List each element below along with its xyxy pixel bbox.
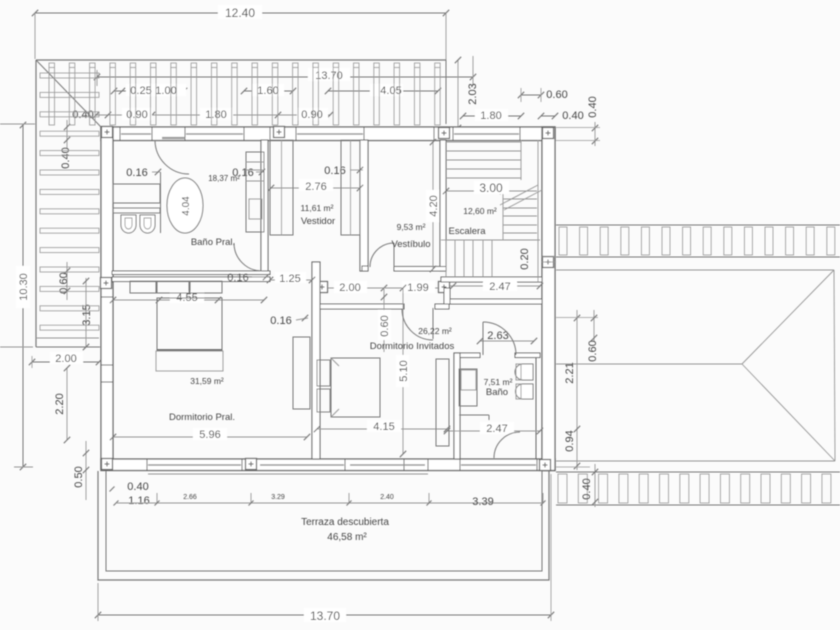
svg-text:1.25: 1.25 bbox=[279, 273, 300, 285]
svg-text:1.99: 1.99 bbox=[407, 282, 428, 294]
vanity counter Bano Pral bbox=[113, 184, 160, 203]
dim 3.00 (stairs) bbox=[443, 181, 509, 195]
svg-text:3.39: 3.39 bbox=[472, 496, 493, 508]
dim 2.21 / 0.94 (right side vertical) bbox=[556, 310, 598, 470]
svg-text:1.80: 1.80 bbox=[205, 109, 226, 121]
column marker 11 bbox=[540, 460, 551, 471]
svg-text:0.16: 0.16 bbox=[227, 272, 248, 284]
door arc Bano to terrace bbox=[494, 432, 520, 458]
svg-text:12.40: 12.40 bbox=[225, 6, 255, 20]
wall Bano (small) left bbox=[454, 353, 460, 459]
right wing roof band (upper) edges bbox=[556, 225, 840, 257]
svg-text:5.96: 5.96 bbox=[199, 429, 220, 441]
dim 0.60 (right side vertical) bbox=[587, 310, 599, 362]
svg-text:Baño: Baño bbox=[486, 387, 508, 398]
roof hatch band top (vertical battens) bbox=[49, 63, 440, 125]
svg-text:10.30: 10.30 bbox=[18, 273, 30, 301]
right wing roof band (upper) battens bbox=[559, 227, 835, 255]
toilet Bano bbox=[515, 364, 533, 380]
dim 4.55 (Bano Pral width) bbox=[110, 291, 267, 304]
closet Vestidor left bbox=[270, 140, 293, 235]
door arc Bano Pral bottom bbox=[234, 243, 262, 271]
dim 5.96 (Dormitorio Pral width) bbox=[110, 428, 310, 441]
wall Dormitorio Pral top bbox=[112, 277, 270, 282]
bed corner marks bbox=[331, 358, 339, 417]
svg-text:0.40: 0.40 bbox=[72, 109, 93, 121]
svg-text:0.60: 0.60 bbox=[546, 89, 567, 101]
svg-text:11,61 m²: 11,61 m² bbox=[301, 203, 334, 213]
room label Dormitorio Invitados bbox=[370, 326, 455, 352]
svg-text:2.63: 2.63 bbox=[487, 330, 508, 342]
shower column Bano Pral bbox=[246, 152, 264, 232]
door Vestibulo arc bbox=[370, 243, 394, 267]
svg-text:2.00: 2.00 bbox=[55, 353, 76, 365]
room label Bano Pral bbox=[191, 174, 240, 248]
dim row 2.00 / 1.99 / 2.47 (corridor) bbox=[328, 279, 543, 294]
wall Bano Pral / Vestidor bbox=[261, 140, 268, 271]
terrace dim row 2.66 / 3.29 / 2.40 bbox=[110, 481, 546, 508]
toilet Bano Pral bbox=[121, 215, 136, 233]
left wall joints bbox=[101, 282, 113, 382]
svg-text:3.15: 3.15 bbox=[81, 304, 93, 325]
svg-text:Vestidor: Vestidor bbox=[301, 216, 335, 227]
dim line 13.70 (upper) bbox=[94, 56, 476, 86]
svg-text:0.40: 0.40 bbox=[587, 96, 599, 117]
svg-text:2.03: 2.03 bbox=[467, 83, 479, 104]
room label Dormitorio Pral bbox=[169, 376, 235, 423]
svg-text:2.20: 2.20 bbox=[54, 393, 66, 414]
door arc Bano Pral top bbox=[155, 140, 189, 174]
terrace parapet inner bbox=[106, 471, 542, 571]
svg-text:4.05: 4.05 bbox=[380, 85, 401, 97]
dim 10.30 (left overall height) bbox=[0, 122, 35, 470]
column marker 3 bbox=[439, 128, 450, 139]
wall Bano (small) top bbox=[454, 353, 540, 358]
wall Vestidor / Vestibulo bbox=[360, 140, 368, 271]
svg-text:9,53 m²: 9,53 m² bbox=[397, 222, 426, 232]
door Dormitorio Invitados leaf bbox=[432, 308, 434, 339]
room label Escalera bbox=[449, 206, 497, 237]
svg-text:0.16: 0.16 bbox=[126, 167, 147, 179]
bed Dormitorio Pral bbox=[157, 298, 222, 351]
dim 0.20 (vertical, right wall) bbox=[519, 248, 556, 269]
shower screen Bano bbox=[459, 415, 489, 420]
stairs right flight treads bbox=[503, 191, 537, 240]
dim 0.40 (vertical, right wall) bbox=[556, 96, 600, 146]
svg-text:31,59 m²: 31,59 m² bbox=[190, 376, 224, 386]
svg-text:4.04: 4.04 bbox=[181, 196, 192, 216]
column marker 1 bbox=[102, 127, 113, 138]
svg-text:2.76: 2.76 bbox=[305, 181, 326, 193]
svg-text:2.47: 2.47 bbox=[486, 423, 507, 435]
svg-text:0.16: 0.16 bbox=[270, 315, 291, 327]
dim 0.40 (right side lower vertical) bbox=[581, 464, 598, 507]
dim 2.03 (vertical, roof band height) bbox=[455, 57, 479, 131]
dim line 13.70 (bottom) bbox=[95, 474, 554, 623]
bathtub (oval) Bano Pral bbox=[167, 178, 203, 233]
svg-text:1.16: 1.16 bbox=[128, 495, 149, 507]
dim line 12.40 (top overall width) bbox=[32, 5, 449, 78]
column marker 4 bbox=[543, 128, 554, 139]
svg-text:0.90: 0.90 bbox=[301, 109, 322, 121]
svg-text:0.60: 0.60 bbox=[379, 315, 391, 336]
cistern band bbox=[113, 208, 160, 213]
dim 3.15 (left, vertical) bbox=[81, 278, 93, 350]
dim 0.60 (top right) bbox=[518, 88, 568, 102]
wall Dormitorio Pral / Invitados bbox=[312, 262, 320, 459]
vanity front edge bbox=[160, 172, 162, 233]
svg-text:3.29: 3.29 bbox=[271, 494, 285, 501]
hip roof diagonal (top-left corner) bbox=[36, 60, 101, 127]
right wing roof band (lower) battens bbox=[558, 474, 831, 503]
svg-text:0.40: 0.40 bbox=[562, 110, 583, 122]
svg-text:0.60: 0.60 bbox=[58, 272, 70, 293]
roof hatch band left (horizontal battens) bbox=[40, 73, 99, 330]
wall Vestibulo bottom bbox=[362, 266, 446, 271]
door Vestibulo leaf bbox=[393, 243, 395, 267]
svg-text:0.90: 0.90 bbox=[126, 109, 147, 121]
stairs room right inner edge bbox=[537, 140, 539, 282]
svg-text:4.20: 4.20 bbox=[428, 195, 440, 216]
svg-text:2.66: 2.66 bbox=[183, 494, 197, 501]
door Bano arc bbox=[483, 322, 516, 355]
column marker 10 bbox=[246, 459, 257, 470]
door Dormitorio Invitados arc bbox=[402, 309, 433, 340]
svg-text:5.10: 5.10 bbox=[398, 360, 410, 381]
column marker 6 bbox=[317, 282, 328, 293]
dim row 0.90 1.80 0.40 (right) bbox=[296, 108, 584, 122]
svg-text:1.80: 1.80 bbox=[480, 110, 501, 122]
top wall window glazing lines bbox=[121, 134, 519, 138]
dim 2.76 (Vestidor width) bbox=[268, 179, 363, 193]
bidet Bano Pral bbox=[140, 215, 155, 233]
column marker 5 bbox=[101, 278, 112, 289]
svg-text:26,22 m²: 26,22 m² bbox=[418, 326, 452, 336]
room label Vestibulo bbox=[391, 222, 430, 250]
svg-text:Terraza descubierta: Terraza descubierta bbox=[301, 517, 389, 528]
stairs break line bbox=[500, 185, 542, 210]
dim 2.63 (Bano door) bbox=[477, 330, 537, 344]
wardrobe Dormitorio Pral bbox=[293, 337, 310, 409]
dim row 0.40 0.90 1.80 (left) bbox=[72, 108, 296, 121]
wardrobe Dormitorio Invitados bbox=[436, 359, 449, 446]
svg-text:0.50: 0.50 bbox=[73, 466, 85, 487]
dim 4.20 (vertical, Escalera) bbox=[426, 139, 440, 272]
exterior wall bottom bbox=[101, 459, 555, 471]
dim 0.60 (vertical, door pier) bbox=[378, 289, 391, 352]
svg-text:0.20: 0.20 bbox=[519, 248, 531, 269]
svg-text:3.00: 3.00 bbox=[479, 181, 503, 195]
svg-text:2.40: 2.40 bbox=[380, 494, 394, 501]
wall corridor / stairs bottom bbox=[441, 277, 542, 282]
dim 0.40 (vertical, left wall thickness) bbox=[60, 120, 72, 169]
exterior wall top bbox=[101, 127, 555, 141]
wall hall / Dormitorio Invitados (right part) bbox=[449, 299, 542, 304]
svg-text:1.00: 1.00 bbox=[155, 85, 176, 97]
exterior wall right bbox=[542, 127, 555, 471]
bidet Bano bbox=[516, 384, 534, 399]
roof outline top-left (main) bbox=[36, 60, 446, 347]
svg-text:2.21: 2.21 bbox=[564, 362, 576, 383]
terrace step line bbox=[148, 473, 428, 475]
bottom wall mullions bbox=[147, 459, 537, 471]
svg-text:13.70: 13.70 bbox=[310, 609, 340, 623]
dim 2.20 (left, vertical) bbox=[54, 365, 70, 443]
svg-text:0.25: 0.25 bbox=[130, 85, 151, 97]
closet Vestidor right bbox=[341, 140, 360, 235]
column marker 2 bbox=[274, 127, 285, 138]
bed foot Dormitorio Pral bbox=[156, 351, 223, 371]
svg-text:2.00: 2.00 bbox=[339, 282, 360, 294]
top wall mullions bbox=[120, 127, 520, 141]
dim 4.15 / 2.47 (bottom rooms) bbox=[314, 420, 543, 435]
wall Bano Pral bottom bbox=[112, 271, 270, 275]
wall Dormitorio Invitados top (door gap) bbox=[314, 304, 449, 309]
svg-text:7,51 m²: 7,51 m² bbox=[484, 377, 513, 387]
svg-text:46,58 m²: 46,58 m² bbox=[327, 532, 367, 543]
dim 0.16 leaders (upper rooms) bbox=[126, 165, 363, 179]
svg-text:Baño Pral.: Baño Pral. bbox=[191, 237, 235, 248]
wall Vestibulo / Escalera bbox=[440, 140, 446, 271]
terrace parapet outer bbox=[98, 471, 549, 580]
svg-text:0.16: 0.16 bbox=[324, 165, 345, 177]
dim 5.10 (vertical, Dormitorio Invitados) bbox=[396, 285, 410, 457]
wall Bano (small) right edge bbox=[535, 357, 537, 459]
door Bano leaf bbox=[482, 322, 484, 355]
dim 2.00 (left) bbox=[29, 352, 102, 368]
svg-text:Dormitorio Pral.: Dormitorio Pral. bbox=[169, 412, 235, 423]
svg-text:1.60: 1.60 bbox=[257, 85, 278, 97]
room label Terraza descubierta bbox=[301, 517, 389, 543]
bed Dormitorio Invitados bbox=[331, 358, 380, 417]
exterior wall left bbox=[101, 127, 113, 470]
svg-text:Vestíbulo: Vestíbulo bbox=[391, 239, 430, 250]
dim 0.60 (left, vertical) bbox=[58, 262, 70, 300]
svg-text:0.60: 0.60 bbox=[587, 340, 599, 361]
vanity Bano bbox=[459, 369, 477, 406]
svg-text:4.15: 4.15 bbox=[373, 421, 394, 433]
dim row 0.16 / 1.25 bbox=[227, 272, 315, 285]
svg-text:2.47: 2.47 bbox=[489, 281, 510, 293]
svg-text:12,60 m²: 12,60 m² bbox=[463, 206, 497, 216]
svg-text:Dormitorio Invitados: Dormitorio Invitados bbox=[370, 341, 455, 352]
pillows Dormitorio Invitados bbox=[317, 360, 330, 412]
svg-text:0.40: 0.40 bbox=[581, 478, 593, 499]
column marker 7 bbox=[439, 282, 450, 293]
dim 0.50 (left, vertical) bbox=[73, 441, 89, 500]
right wing roof band (lower) edges bbox=[556, 472, 840, 505]
column marker 9 bbox=[102, 459, 113, 470]
svg-text:0.40: 0.40 bbox=[127, 481, 148, 493]
svg-text:0.94: 0.94 bbox=[564, 430, 576, 451]
svg-text:Escalera: Escalera bbox=[449, 226, 487, 237]
svg-text:18,37 m²: 18,37 m² bbox=[208, 174, 240, 183]
stairs upper flight treads bbox=[446, 140, 521, 180]
dim row 0.25 1.00 / 1.60 / 4.05 bbox=[111, 84, 441, 97]
column marker 8 bbox=[543, 257, 554, 268]
right wing hip roof outline bbox=[556, 270, 835, 461]
stairs lower flight risers bbox=[441, 240, 540, 277]
closet boxes Dormitorio Pral bbox=[130, 281, 222, 293]
room label Vestidor bbox=[301, 203, 336, 227]
wall jamb at hall bbox=[444, 288, 450, 304]
dim 0.16 leader (bedroom wall) bbox=[270, 315, 308, 327]
bottom wall window glazing lines bbox=[148, 464, 536, 466]
room label Bano bbox=[484, 377, 513, 398]
